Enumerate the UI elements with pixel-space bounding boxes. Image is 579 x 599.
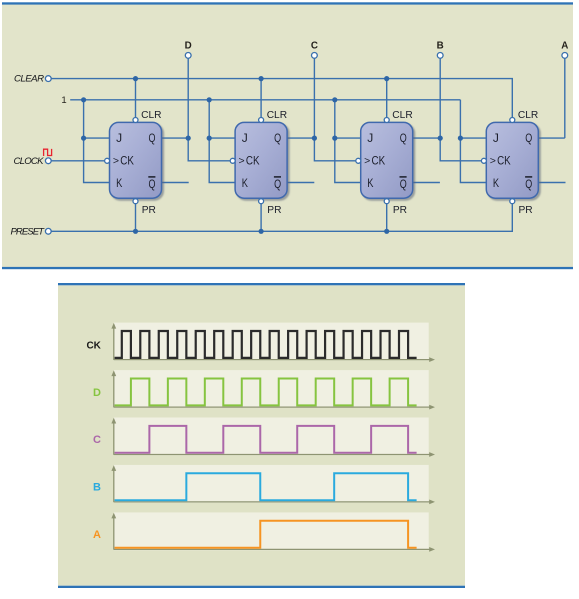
output B terminal: [437, 53, 443, 59]
wire PR1: [135, 204, 137, 232]
wire Q2-bar stub: [287, 182, 314, 184]
svg-text:J: J: [116, 131, 122, 145]
svg-text:PR: PR: [267, 205, 281, 216]
wire J2 input: [209, 137, 235, 139]
svg-text:B: B: [437, 41, 444, 52]
waveform C: [115, 426, 417, 453]
waveform D: [115, 379, 417, 406]
svg-text:Q: Q: [400, 131, 407, 145]
wire J3 input: [335, 137, 361, 139]
timing panel: [58, 285, 465, 585]
flip-flop U3 body: [361, 122, 413, 198]
PRESET terminal: [45, 228, 51, 234]
wire Q3 output: [413, 137, 441, 139]
wire PR2: [260, 204, 262, 232]
flip-flop U4 body: [486, 122, 538, 198]
U1 CK bubble: [105, 158, 110, 163]
junction Q3 node: [438, 136, 443, 141]
wire J1K1 feed: [84, 100, 110, 183]
svg-text:Q: Q: [525, 177, 532, 191]
CLOCK terminal: [45, 158, 51, 164]
wire CLOCK to CK1: [51, 160, 104, 162]
waveform A: [115, 521, 417, 548]
svg-text:>: >: [490, 155, 496, 167]
strip A: [114, 512, 429, 550]
svg-text:PRESET: PRESET: [11, 227, 46, 238]
junction 1-rail node 1: [81, 97, 86, 102]
circuit panel: [2, 5, 573, 268]
strip C: [114, 418, 429, 456]
waveform B: [115, 473, 417, 500]
flip-flop U2 body: [235, 122, 287, 198]
clock pulse symbol: [44, 149, 52, 156]
wire Q3-bar stub: [413, 182, 440, 184]
svg-text:Q: Q: [525, 131, 532, 145]
svg-text:CK: CK: [497, 153, 511, 167]
junction J3 node: [332, 136, 337, 141]
wire J2K2 feed: [209, 100, 235, 183]
timing panel bottom border: [58, 586, 465, 588]
U4 PR bubble: [510, 199, 515, 204]
wire node-B to CK4: [439, 58, 441, 138]
junction J2 node: [207, 136, 212, 141]
wire Q1 output: [162, 137, 189, 139]
junction J1 node: [81, 136, 86, 141]
circuit panel bottom border: [2, 267, 573, 269]
wire CLR1: [135, 79, 137, 118]
output C terminal: [312, 53, 318, 59]
U2 CLR bubble: [259, 118, 264, 123]
U1 PR bubble: [133, 199, 138, 204]
svg-text:J: J: [242, 131, 248, 145]
svg-text:A: A: [93, 529, 101, 541]
wire CLR3: [386, 79, 388, 118]
svg-text:C: C: [311, 41, 318, 52]
svg-text:CLR: CLR: [392, 110, 412, 121]
svg-text:PR: PR: [142, 205, 156, 216]
U1 CLR bubble: [133, 118, 138, 123]
svg-text:K: K: [242, 176, 248, 190]
wire J4 input: [460, 137, 486, 139]
wire Q2 output: [287, 137, 314, 139]
svg-text:1: 1: [61, 95, 66, 106]
U3 PR bubble: [384, 199, 389, 204]
svg-text:B: B: [93, 482, 101, 494]
svg-text:CK: CK: [86, 340, 101, 351]
U4 CK bubble: [481, 158, 486, 163]
wire node-D to CK2: [187, 58, 189, 138]
axis D: [113, 375, 115, 407]
svg-text:Q: Q: [149, 177, 156, 191]
svg-text:Q: Q: [149, 131, 156, 145]
junction 1-rail node 2: [207, 97, 212, 102]
U3 CLR bubble: [384, 118, 389, 123]
wire node-C to CK3: [313, 58, 315, 138]
svg-text:C: C: [93, 434, 101, 446]
junction PRESET node 2: [259, 229, 264, 234]
svg-text:CLR: CLR: [267, 110, 287, 121]
strip CK: [114, 323, 429, 361]
svg-text:Q: Q: [400, 177, 407, 191]
U2 CK bubble: [230, 158, 235, 163]
U3 CK bubble: [356, 158, 361, 163]
svg-text:A: A: [561, 41, 568, 52]
junction PRESET node 1: [133, 229, 138, 234]
circuit panel top border: [2, 2, 573, 4]
svg-text:K: K: [367, 176, 373, 190]
svg-text:>: >: [113, 155, 119, 167]
wire J4K4 feed: [460, 100, 486, 183]
svg-text:Q: Q: [274, 177, 281, 191]
axis B: [113, 470, 115, 502]
svg-text:>: >: [239, 155, 245, 167]
svg-text:CLR: CLR: [518, 110, 538, 121]
junction CLEAR node 2: [259, 76, 264, 81]
wire Q4 output: [538, 137, 565, 139]
svg-text:CLR: CLR: [141, 110, 161, 121]
junction Q2 node: [312, 136, 317, 141]
U2 PR bubble: [259, 199, 264, 204]
svg-text:D: D: [185, 41, 192, 52]
output A terminal: [562, 53, 568, 59]
wire J3K3 feed: [335, 100, 361, 183]
svg-text:PR: PR: [393, 205, 407, 216]
wire CLEAR bus: [51, 79, 512, 118]
wire PRESET bus: [51, 204, 512, 232]
strip D: [114, 370, 429, 408]
svg-text:CK: CK: [372, 153, 386, 167]
wire Q1-bar stub: [162, 182, 189, 184]
wire Q4-bar stub: [538, 182, 565, 184]
junction 1-rail node 3: [332, 97, 337, 102]
svg-text:J: J: [493, 131, 499, 145]
strip B: [114, 465, 429, 503]
flip-flop U1 body: [110, 122, 162, 198]
svg-text:CK: CK: [120, 153, 134, 167]
axis C: [113, 423, 115, 455]
svg-text:J: J: [367, 131, 373, 145]
wire node-A vertical: [564, 58, 566, 138]
svg-text:CLOCK: CLOCK: [14, 156, 45, 167]
wire PR3: [386, 204, 388, 232]
svg-text:CK: CK: [246, 153, 260, 167]
CLEAR terminal: [45, 76, 51, 82]
junction PRESET node 3: [384, 229, 389, 234]
output D terminal: [185, 53, 191, 59]
junction Q1 node: [186, 136, 191, 141]
wire logic-1 bus: [70, 99, 460, 101]
junction CLEAR node 1: [133, 76, 138, 81]
wire J1 input: [84, 137, 110, 139]
svg-text:CLEAR: CLEAR: [14, 74, 44, 85]
axis CK: [113, 328, 115, 360]
svg-text:>: >: [364, 155, 370, 167]
timing panel top border: [58, 283, 465, 285]
svg-text:K: K: [116, 176, 122, 190]
axis A: [113, 517, 115, 549]
junction CLEAR node 3: [384, 76, 389, 81]
svg-text:PR: PR: [519, 205, 533, 216]
svg-text:K: K: [493, 176, 499, 190]
junction J4 node: [458, 136, 463, 141]
wire CLR2: [260, 79, 262, 118]
U4 CLR bubble: [510, 118, 515, 123]
waveform CK: [115, 331, 417, 358]
svg-text:Q: Q: [274, 131, 281, 145]
svg-text:D: D: [93, 387, 101, 399]
